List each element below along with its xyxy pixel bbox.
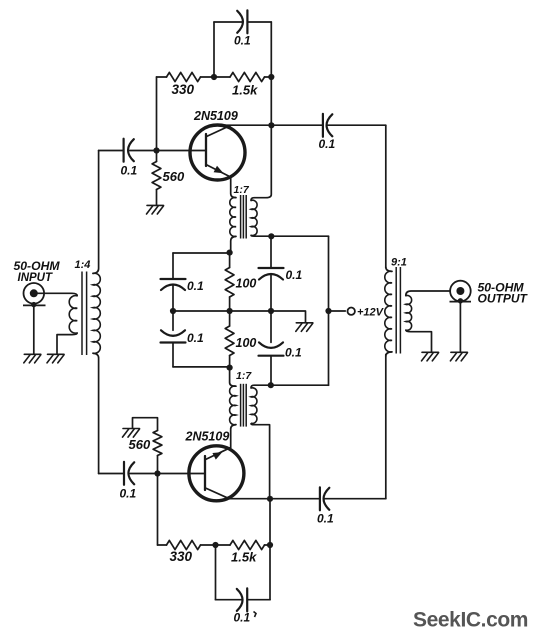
resistor R3 560 (upper) top lead — [156, 151, 158, 162]
wire input bus corner to C2 (upper) — [99, 150, 124, 152]
wire T4 secondary top to J2 — [406, 291, 450, 296]
stray tick mark next to C10 label — [254, 612, 257, 618]
coax connector J2 shield bar — [450, 301, 472, 303]
svg-text:0.1: 0.1 — [234, 34, 251, 48]
wire J1 to T1 primary — [38, 293, 77, 296]
terminal +12V (open circle) — [348, 308, 355, 315]
resistor R4 100 (upper) top lead — [229, 253, 231, 268]
wire T3 primary bottom to Q2 emitter — [231, 425, 236, 448]
wire bottom rail y=367 — [173, 366, 230, 368]
svg-text:1:7: 1:7 — [234, 184, 250, 196]
junction J1 shield — [31, 302, 36, 307]
transformer T1 secondary winding — [93, 273, 100, 353]
wire R3 to ground stub (upper) — [156, 190, 158, 206]
wire Q1 collector rail — [212, 124, 323, 126]
svg-text:0.1: 0.1 — [285, 346, 302, 360]
resistor R3 560 (upper) — [152, 162, 161, 190]
svg-text:330: 330 — [170, 549, 193, 564]
junction T2 primary/100/rail (upper) — [227, 250, 233, 256]
wire J1 shield to ground — [33, 305, 35, 354]
capacitor C7 top lead (mid column lower) — [270, 311, 272, 342]
wire between R7 and R8 (lower) — [201, 544, 231, 546]
svg-text:0.1: 0.1 — [234, 611, 251, 625]
Q1 collector diagonal — [207, 125, 231, 136]
wire feedback vertical x=270 (lower) — [269, 499, 271, 600]
junction T3 primary/100/rail (lower) — [227, 365, 233, 371]
ground below R3 (upper 560) — [147, 205, 164, 214]
coax connector J1 input (outer circle) — [24, 283, 45, 304]
wire T2 secondary bottom feed to bus — [251, 234, 329, 237]
resistor R2 1.5k (upper) — [230, 72, 265, 81]
svg-text:1.5k: 1.5k — [232, 83, 258, 98]
svg-text:0.1: 0.1 — [121, 164, 138, 178]
capacitor C4 0.1 (left column upper) — [161, 279, 186, 290]
coax connector J2 output (outer circle) — [450, 281, 471, 302]
transformer T4 secondary winding — [406, 296, 412, 331]
Q2 emitter diagonal — [206, 448, 231, 460]
transformer T2 1:7 primary winding (upper) — [230, 197, 236, 236]
junction T2 secondary bottom / C6 (upper) — [268, 233, 274, 239]
transformer T3 1:7 primary winding (lower) — [230, 386, 236, 425]
wire left bus lower (to Q2 input) — [93, 353, 99, 473]
wire feedback loop left vertical (lower) — [215, 545, 217, 600]
wire feedback loop bottom-left (lower) — [216, 599, 243, 601]
capacitor C3 0.1 (upper output coupling) — [323, 114, 332, 137]
svg-text:1.5k: 1.5k — [231, 550, 257, 565]
wire feedback loop left vertical (upper) — [213, 22, 215, 77]
capacitor C2 0.1 (upper input coupling) — [124, 139, 134, 162]
wire T2 secondary top feed — [251, 125, 271, 200]
svg-text:0.1: 0.1 — [187, 331, 204, 345]
capacitor C5 0.1 (left column lower) — [161, 330, 186, 342]
Q1 emitter diagonal — [207, 165, 232, 177]
wire bias rail left lead (upper) — [157, 76, 167, 78]
resistor R7 330 (lower) — [167, 540, 201, 549]
capacitor C4 top lead (left column upper) — [172, 253, 174, 279]
wire inner bus x=329 — [328, 236, 330, 385]
wire feedback loop bottom-right (lower) — [247, 599, 270, 601]
capacitor C7 0.1 (mid column lower) — [259, 342, 284, 355]
capacitor C1 0.1 (upper feedback) — [237, 10, 247, 33]
coax connector J1 center pin — [30, 289, 38, 297]
capacitor C10 0.1 (lower feedback) — [237, 588, 247, 611]
svg-text:SeekIC.com: SeekIC.com — [413, 609, 528, 632]
junction T3 secondary top / C7 — [268, 382, 274, 388]
wire left bus upper (to Q1 input) — [93, 151, 99, 274]
transformer T3 core (3 lines) — [241, 384, 247, 427]
resistor R5 100 (lower) top lead — [229, 311, 231, 326]
transformer T3 secondary winding (lower) — [251, 388, 257, 424]
junction 1.5k/feedback (upper) — [268, 74, 274, 80]
transformer T4 core (2 lines) — [396, 267, 400, 354]
wire feedback loop top-left (upper) — [214, 21, 243, 23]
wire feedback vertical x=271 (upper, loop to collector rail) — [270, 22, 272, 125]
svg-text:9:1: 9:1 — [391, 257, 407, 269]
coax connector J2 center pin — [456, 287, 464, 295]
junction 330/1.5k (lower) — [212, 542, 218, 548]
resistor R6 560 (lower) bottom lead — [157, 456, 159, 474]
svg-text:1:4: 1:4 — [75, 259, 91, 271]
ground for J1 input connector — [24, 354, 41, 363]
Q2 emitter arrowhead — [212, 452, 222, 460]
junction mid rail / R4 — [227, 308, 233, 314]
wire T4 secondary bottom to ground — [406, 330, 432, 352]
wire +12V feed from inner bus — [329, 310, 346, 312]
wire right bus into T4 primary top — [386, 267, 392, 271]
wire Q1 emitter to T2 primary — [231, 177, 236, 198]
resistor R5 100 (lower) — [225, 326, 234, 356]
svg-text:50-OHM: 50-OHM — [14, 259, 61, 273]
Q1 base bar — [205, 134, 207, 166]
junction mid rail / C4 — [170, 308, 176, 314]
ground for T4 secondary — [422, 352, 439, 361]
junction J2 shield — [458, 298, 463, 303]
svg-text:0.1: 0.1 — [286, 268, 303, 282]
resistor R1 330 (upper) — [167, 72, 201, 81]
ground at end of bypass rail — [296, 323, 313, 332]
node base Q2 — [154, 470, 160, 476]
resistor R6 560 (lower) — [153, 431, 162, 456]
svg-text:OUTPUT: OUTPUT — [478, 292, 529, 306]
wire R8 right lead (lower) — [265, 544, 271, 546]
node base Q1 — [153, 147, 159, 153]
svg-text:330: 330 — [172, 82, 195, 97]
capacitor C7 bottom lead — [270, 356, 272, 386]
capacitor C6 0.1 (mid column upper) — [259, 268, 284, 280]
ground for T1 primary — [47, 354, 64, 363]
svg-text:100: 100 — [236, 277, 257, 291]
transformer T2 core (3 lines) — [241, 195, 247, 239]
ground for J2 output connector — [450, 352, 467, 361]
wire T3 secondary top feed — [251, 385, 329, 388]
coax connector J1 shield bar — [23, 304, 46, 306]
wire T4 primary bottom to right bus — [386, 352, 392, 356]
transformer T4 9:1 primary winding — [385, 271, 392, 352]
transformer T1 1:4 primary winding — [69, 296, 77, 334]
junction mid rail / C6 — [268, 308, 274, 314]
svg-text:0.1: 0.1 — [319, 137, 336, 151]
wire feedback loop top-right (upper) — [247, 21, 271, 23]
wire junction to T3 primary top — [230, 368, 236, 387]
wire T1 primary bottom to ground — [57, 333, 77, 354]
transistor Q1 2N5109 (upper) — [190, 125, 245, 180]
transformer T2 secondary winding (upper) — [251, 200, 257, 235]
Q1 emitter arrowhead — [214, 166, 224, 174]
junction collector/feedback (lower) — [267, 496, 273, 502]
capacitor C5 bottom lead — [172, 343, 174, 367]
svg-text:560: 560 — [129, 437, 151, 452]
wire x=157.5 base to bias rail (lower) — [157, 474, 159, 546]
svg-text:1:7: 1:7 — [236, 370, 252, 382]
wire T2 primary bottom to junction — [231, 236, 236, 252]
wire left bias vertical x=156.5 (upper) — [156, 77, 158, 151]
svg-text:2N5109: 2N5109 — [193, 109, 238, 123]
junction mid rail / right bus — [325, 308, 331, 314]
wire right bus lower segment — [385, 355, 387, 499]
resistor R4 100 (upper) — [225, 268, 234, 298]
capacitor C4 bottom lead — [172, 286, 174, 312]
svg-text:0.1: 0.1 — [120, 487, 137, 501]
junction collector/feedback (upper) — [268, 122, 274, 128]
wire right bus upper segment — [385, 125, 387, 267]
svg-text:2N5109: 2N5109 — [185, 430, 230, 444]
resistor R8 1.5k (lower) — [230, 540, 265, 549]
resistor R4 bottom lead — [229, 297, 231, 311]
wire T3 secondary bottom feed — [251, 424, 270, 499]
svg-text:100: 100 — [236, 336, 257, 350]
capacitor C9 0.1 (lower output coupling) — [320, 487, 329, 510]
wire C2 to Q1 base node — [130, 150, 206, 152]
transistor Q2 2N5109 (lower) — [189, 446, 244, 501]
junction 1.5k/feedback (lower) — [267, 542, 273, 548]
Q2 collector diagonal — [206, 488, 230, 499]
svg-text:0.1: 0.1 — [187, 279, 204, 293]
ground for R6 (lower 560) — [123, 429, 140, 438]
wire bias rail left lead (lower) — [158, 544, 167, 546]
wire between R1 and R2 (upper) — [201, 76, 231, 78]
wire R6 top to ground arm — [133, 418, 158, 431]
svg-text:+12V: +12V — [357, 307, 385, 319]
transformer T1 core (2 lines) — [82, 272, 87, 356]
capacitor C6 bottom lead — [270, 275, 272, 311]
wire C9 to right bus (lower) — [324, 498, 385, 500]
wire R2 right lead (upper) — [265, 76, 272, 78]
capacitor C6 top lead (mid column upper) — [270, 236, 272, 268]
svg-text:0.1: 0.1 — [317, 512, 334, 526]
capacitor C8 0.1 (lower input coupling) — [124, 462, 134, 485]
wire top rail y=253 — [173, 252, 230, 254]
wire Q2 collector rail — [230, 498, 320, 500]
wire input bus corner to C8 (lower) — [99, 473, 124, 475]
resistor R5 bottom lead — [229, 356, 231, 368]
wire C3 to right bus (upper) — [327, 124, 385, 126]
Q2 base bar — [204, 456, 206, 490]
junction 330/1.5k (upper) — [211, 74, 217, 80]
wire J2 shield to ground — [459, 302, 461, 352]
wire bypass rail y=311 (left portion, ends at ground) — [173, 311, 306, 323]
svg-text:560: 560 — [163, 169, 185, 184]
wire C8 to Q2 base node — [130, 473, 205, 475]
capacitor C5 top lead (left column lower) — [172, 311, 174, 330]
